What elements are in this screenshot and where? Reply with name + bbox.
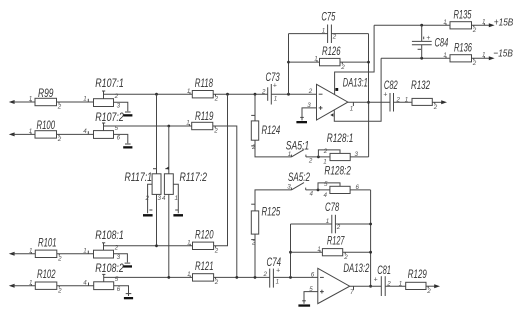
wire row R119 (wiper row 2) [104, 126, 237, 277]
svg-text:1: 1 [288, 151, 291, 158]
svg-text:2: 2 [472, 27, 477, 34]
node R126 left [287, 61, 290, 64]
power lead +15 to DA13:1 top [335, 25, 375, 94]
svg-text:6: 6 [117, 286, 121, 293]
svg-text:SA5:2: SA5:2 [288, 172, 310, 184]
svg-text:R108:2: R108:2 [95, 263, 124, 275]
resistor R119 [186, 111, 218, 135]
op-amp DA13:1 [307, 78, 368, 120]
svg-text:1: 1 [350, 105, 353, 112]
svg-text:C75: C75 [321, 12, 335, 24]
svg-text:3: 3 [117, 254, 121, 261]
svg-text:3: 3 [158, 195, 162, 202]
svg-text:+: + [273, 82, 277, 89]
svg-text:2: 2 [214, 96, 219, 103]
feedback2 left rail [290, 224, 292, 277]
ground DA13:2 pin5 [298, 301, 310, 307]
resistor R101 [29, 237, 62, 262]
svg-text:3: 3 [355, 151, 359, 158]
svg-text:+: + [374, 277, 378, 284]
node R127 right [369, 251, 372, 254]
svg-text:2: 2 [308, 157, 313, 164]
svg-text:R102: R102 [37, 269, 56, 281]
resistor R121 [187, 261, 219, 286]
potentiometer R128:1 [318, 133, 368, 166]
svg-text:2: 2 [57, 136, 62, 143]
svg-text:+: + [383, 92, 387, 99]
capacitor C82 [383, 80, 408, 112]
node R126 right [367, 61, 370, 64]
svg-text:C81: C81 [377, 265, 391, 277]
node R118 / bus1 [226, 93, 229, 96]
wire R99 to R107:1 [57, 101, 94, 103]
svg-text:5: 5 [324, 181, 328, 188]
svg-text:1: 1 [274, 95, 277, 102]
svg-text:1: 1 [29, 247, 32, 254]
-15V power rail [381, 57, 450, 59]
svg-text:2: 2 [57, 255, 62, 262]
svg-text:R124: R124 [262, 125, 281, 137]
svg-text:R135: R135 [454, 10, 472, 22]
trimmer R117:1 [125, 94, 162, 246]
resistor R126 [289, 46, 369, 71]
svg-text:6: 6 [311, 271, 315, 278]
svg-text:1: 1 [187, 240, 190, 247]
wire row R120 (wiper row 3) [104, 94, 228, 246]
output arrow 1 [441, 100, 447, 104]
svg-text:7: 7 [350, 289, 354, 296]
output arrow +15V [489, 23, 495, 27]
node SA5:1 / R128:1 [317, 156, 320, 159]
node C84 top [420, 24, 423, 27]
feedback1 left rail [288, 34, 290, 95]
node R119 / R117:2 [167, 125, 170, 128]
node R124 top [254, 93, 257, 96]
svg-text:R101: R101 [38, 237, 57, 249]
svg-text:1: 1 [317, 246, 320, 253]
resistor R127 [291, 235, 371, 261]
svg-text:C84: C84 [435, 38, 449, 50]
resistor R125 [251, 190, 291, 278]
svg-text:2: 2 [261, 89, 266, 96]
resistor R118 [187, 78, 219, 103]
ground of R117:2 [173, 210, 183, 217]
capacitor C75 [289, 12, 369, 44]
svg-text:1: 1 [326, 218, 329, 225]
input arrow row 1 [9, 100, 35, 104]
svg-text:1: 1 [323, 159, 326, 166]
power lead -15 to DA13:1 bottom [330, 58, 381, 121]
input arrow row 4 [9, 284, 36, 288]
potentiometer R107:2 [83, 112, 128, 143]
svg-text:1: 1 [443, 19, 446, 26]
resistor R120 [187, 230, 219, 255]
wire C82 to R132 [394, 101, 413, 103]
node R120 / R117:1 [155, 244, 158, 247]
svg-text:C78: C78 [325, 202, 340, 214]
svg-text:1: 1 [29, 279, 32, 286]
+15V power rail [374, 24, 450, 26]
svg-text:1: 1 [187, 88, 190, 95]
svg-text:2: 2 [57, 104, 62, 111]
wire DA13:1 pin3 to ground [302, 108, 317, 121]
svg-text:1: 1 [29, 128, 32, 135]
svg-text:2: 2 [336, 224, 341, 231]
svg-text:R99: R99 [38, 88, 54, 100]
node R119 bus joins pin6 row [235, 276, 238, 279]
wire R128:2 pin6 down to output node [370, 190, 372, 286]
svg-text:R121: R121 [195, 261, 214, 273]
svg-text:2: 2 [57, 287, 62, 294]
node feedback2 left [289, 276, 292, 279]
svg-text:1: 1 [83, 248, 86, 255]
svg-text:2: 2 [145, 195, 150, 202]
svg-text:4: 4 [310, 190, 314, 197]
trimmer R117:2 [162, 126, 207, 277]
svg-text:C82: C82 [384, 80, 398, 92]
svg-text:R108:1: R108:1 [95, 230, 124, 242]
svg-text:R107:1: R107:1 [95, 78, 124, 90]
svg-text:2: 2 [332, 33, 337, 40]
capacitor C81 [374, 265, 403, 296]
node C78 right [369, 223, 372, 226]
resistor R129 [406, 269, 435, 295]
svg-text:+: + [426, 35, 430, 42]
svg-text:1: 1 [443, 52, 446, 59]
switch SA5:1 [286, 140, 330, 164]
ground of R108:2 [124, 294, 133, 300]
svg-text:4: 4 [162, 195, 166, 202]
potentiometer R128:2 [318, 166, 371, 199]
svg-text:R117:2: R117:2 [180, 172, 208, 184]
op-amp DA13:2 [309, 263, 370, 304]
svg-text:6: 6 [356, 184, 360, 191]
node R125 bottom [254, 276, 257, 279]
svg-text:−15В: −15В [493, 48, 513, 60]
node R121 / R117:2 [167, 276, 170, 279]
svg-text:1: 1 [482, 18, 485, 25]
svg-text:3: 3 [117, 102, 121, 109]
wire DA13:1 output [348, 101, 390, 103]
wire row R121 (wiper row 4) [104, 276, 318, 278]
svg-text:2: 2 [433, 104, 438, 111]
svg-text:R128:1: R128:1 [327, 133, 354, 145]
potentiometer R108:1 [83, 230, 127, 263]
node DA13:2 output [369, 285, 372, 288]
svg-text:+15В: +15В [494, 16, 514, 28]
svg-text:2: 2 [343, 254, 348, 261]
svg-text:1: 1 [29, 96, 32, 103]
svg-text:R132: R132 [411, 80, 430, 92]
svg-text:4: 4 [324, 192, 328, 199]
capacitor C74 [263, 257, 282, 288]
wiper of R117:2 [173, 184, 178, 213]
node C84 bottom [420, 57, 423, 60]
capacitor C78 [291, 202, 371, 233]
svg-text:DA13:1: DA13:1 [343, 78, 368, 90]
node R118 / R117:1 [155, 93, 158, 96]
output arrow -15V [489, 56, 495, 60]
svg-text:R118: R118 [195, 78, 214, 90]
svg-text:4: 4 [83, 128, 87, 135]
svg-text:2: 2 [214, 247, 219, 254]
svg-text:R107:2: R107:2 [95, 112, 124, 124]
capacitor C84 [412, 25, 448, 58]
wire DA13:2 pin5 to ground [304, 292, 318, 304]
svg-text:2: 2 [263, 271, 268, 278]
input arrow row 3 [9, 252, 36, 256]
svg-text:R100: R100 [37, 120, 56, 132]
svg-text:1: 1 [83, 96, 86, 103]
svg-text:+: + [276, 268, 280, 275]
ground of R107:2 [123, 144, 132, 149]
svg-text:R120: R120 [195, 230, 214, 242]
svg-text:1: 1 [482, 51, 485, 58]
svg-text:R126: R126 [322, 46, 341, 58]
node SA5:2 / R128:2 [317, 189, 320, 192]
svg-text:2: 2 [340, 64, 345, 71]
capacitor C73 [261, 72, 280, 104]
svg-text:R129: R129 [408, 269, 427, 281]
input arrow row 2 [9, 132, 35, 136]
svg-text:1: 1 [314, 56, 317, 63]
svg-text:2: 2 [323, 148, 328, 155]
output arrow 2 [434, 284, 440, 288]
svg-text:2: 2 [308, 88, 313, 95]
svg-text:DA13:2: DA13:2 [343, 263, 369, 275]
svg-text:2: 2 [214, 279, 219, 286]
wire DA13:2 output [350, 285, 382, 287]
potentiometer R107:1 [83, 78, 128, 111]
resistor R100 [29, 120, 62, 143]
resistor R136 [443, 43, 489, 67]
ground DA13:1 pin3 [296, 117, 307, 123]
svg-text:6: 6 [117, 135, 121, 142]
node DA13:1 output [367, 101, 370, 104]
svg-text:1: 1 [322, 28, 325, 35]
switch SA5:2 [287, 172, 330, 197]
wire R102 to R108:2 [57, 285, 94, 287]
svg-text:2: 2 [213, 128, 218, 135]
feedback1 right rail [368, 34, 370, 103]
ground of R107:1 [123, 112, 132, 117]
svg-text:R128:2: R128:2 [324, 166, 351, 178]
ground of R117:1 [143, 210, 153, 217]
svg-text:1: 1 [276, 279, 279, 286]
wiper of R117:1 [148, 184, 153, 213]
wire R100 to R107:2 [57, 133, 94, 135]
svg-text:R117:1: R117:1 [125, 172, 153, 184]
svg-text:R125: R125 [262, 206, 281, 218]
svg-text:2: 2 [426, 288, 431, 295]
svg-text:R136: R136 [454, 43, 472, 55]
svg-text:R127: R127 [327, 235, 345, 247]
resistor R99 [29, 88, 62, 111]
svg-text:3: 3 [287, 184, 291, 191]
wire R128:1 pin3 up to output node [368, 102, 370, 157]
resistor R102 [29, 269, 62, 294]
svg-text:R119: R119 [195, 111, 214, 123]
resistor R132 [411, 80, 442, 111]
svg-text:1: 1 [186, 120, 189, 127]
svg-text:1: 1 [175, 195, 178, 202]
node feedback1 left [287, 93, 290, 96]
potentiometer R108:2 [83, 263, 128, 296]
ground of R108:1 [123, 263, 132, 267]
wire R101 to R108:1 [57, 253, 94, 255]
resistor R135 [443, 10, 489, 34]
resistor R124 [251, 94, 291, 157]
wire C81 to R129 [385, 285, 406, 287]
node R127 left [289, 251, 292, 254]
wire row R118 (wiper row 1) [104, 93, 317, 95]
svg-text:4: 4 [83, 279, 87, 286]
svg-text:1: 1 [187, 271, 190, 278]
svg-text:2: 2 [472, 60, 477, 67]
